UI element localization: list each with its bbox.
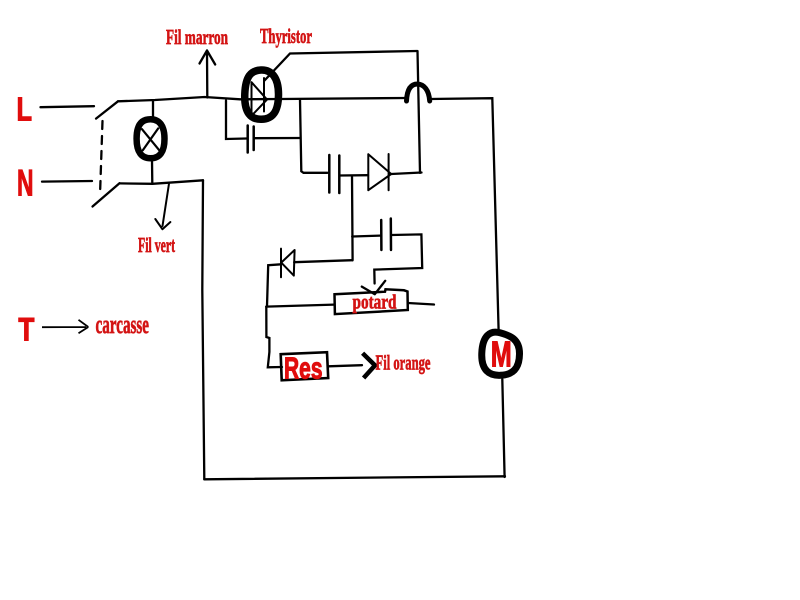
- wire down to Res: [266, 307, 282, 368]
- arrow fil marron: [200, 51, 216, 98]
- svg-text:Fil vert: Fil vert: [138, 233, 175, 257]
- svg-text:Fil marron: Fil marron: [166, 25, 228, 49]
- wire top right to motor: [430, 98, 499, 330]
- wire C2 to D1: [340, 174, 368, 177]
- svg-text:Fil orange: Fil orange: [376, 350, 431, 374]
- capacitor C3 plates: [381, 219, 391, 251]
- wire D2 tail: [267, 264, 281, 306]
- wire left vertical: [202, 180, 204, 479]
- arrow T carcasse: [42, 320, 88, 333]
- thyristor triangle: [252, 82, 268, 116]
- wire motor bottom lead: [502, 379, 504, 477]
- crossover hump: [407, 84, 430, 101]
- arrow fil vert: [155, 184, 170, 230]
- wire L lead: [41, 106, 95, 107]
- wire branch vertical: [300, 100, 328, 173]
- resistor Res box: [281, 352, 329, 380]
- wire D1 to bypass: [391, 173, 421, 175]
- wire node to potard: [266, 305, 334, 307]
- svg-text:Thyristor: Thyristor: [260, 24, 312, 48]
- motor M ring: [482, 332, 520, 375]
- wire N to corner: [120, 180, 204, 184]
- wire lamp bottom lead: [151, 160, 154, 184]
- wire D2 to junction: [294, 260, 352, 262]
- lamp X: [142, 128, 159, 150]
- wire Res right: [328, 365, 362, 366]
- wire N lead: [42, 180, 92, 183]
- svg-text:N: N: [17, 163, 34, 204]
- svg-text:T: T: [18, 312, 34, 348]
- capacitor C1 plates: [248, 126, 254, 153]
- diode D1 cathode bar: [388, 154, 390, 190]
- wire to C3: [352, 234, 380, 237]
- diode D1 triangle: [368, 154, 391, 190]
- wire junction vertical: [351, 176, 354, 260]
- svg-text:carcasse: carcasse: [96, 310, 150, 339]
- wire top main: [118, 97, 406, 101]
- dashed switch link: [100, 121, 103, 195]
- svg-text:Res: Res: [284, 351, 323, 386]
- wire bypass vertical: [418, 51, 421, 173]
- capacitor C1 left drop: [226, 101, 247, 140]
- wire C1 to branch: [254, 137, 300, 139]
- svg-text:potard: potard: [353, 292, 397, 314]
- wiper arrowhead: [362, 281, 385, 294]
- capacitor C2 plates: [329, 155, 339, 193]
- svg-text:M: M: [491, 334, 512, 375]
- diode D2 cathode bar: [280, 249, 282, 278]
- wire lamp top lead: [152, 100, 154, 118]
- diode D2 triangle: [281, 250, 294, 276]
- wire potard right: [408, 303, 434, 305]
- wire bottom: [204, 476, 505, 479]
- switch blade L: [96, 101, 118, 118]
- potentiometer potard box: [335, 289, 408, 314]
- wire C3 to wiper: [374, 234, 422, 283]
- lamp ring: [137, 119, 165, 158]
- arrow chevron fil orange: [363, 353, 375, 378]
- switch blade N: [93, 183, 120, 206]
- wire gate bypass: [265, 51, 418, 81]
- svg-text:L: L: [17, 91, 33, 128]
- thyristor cathode bar: [263, 78, 265, 112]
- thyristor ring: [245, 70, 279, 119]
